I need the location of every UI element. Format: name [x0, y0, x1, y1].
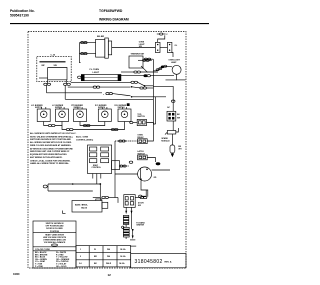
svg-text:TGF645WFWD: TGF645WFWD — [99, 9, 123, 13]
connector C on riser to top border — [157, 33, 168, 43]
door switch S7 — [167, 42, 178, 52]
wire gauge table — [76, 246, 131, 267]
svg-text:ANY WIRING IN THIS APPLIANCE.: ANY WIRING IN THIS APPLIANCE. — [30, 156, 63, 159]
label oven control — [76, 137, 94, 142]
svg-text:2: 2 — [80, 256, 81, 258]
wire thermostat right with connector — [143, 58, 153, 60]
svg-text:12: 12 — [108, 273, 112, 277]
wire with connector under switches — [138, 59, 152, 61]
bus wire A — [71, 81, 146, 86]
wire W1 thermostat lower — [121, 71, 158, 73]
oven lamp L1 — [153, 60, 185, 80]
connector pair below C-30 right — [63, 83, 70, 85]
wire under burner switches row 1 — [44, 122, 105, 127]
svg-text:THERMOSTAT: THERMOSTAT — [131, 53, 145, 56]
svg-text:BK-BR: BK-BR — [97, 36, 104, 38]
spark igniter electrode — [170, 134, 182, 157]
wire clock pin to junction — [99, 184, 101, 201]
svg-text:LIGHT: LIGHT — [93, 72, 100, 74]
wire motor M2 bottom jog — [135, 181, 148, 199]
connector block mark — [127, 103, 130, 106]
wire oven relay right riser — [147, 140, 153, 141]
thermostat box TH1 — [129, 53, 148, 73]
svg-text:14 GA: 14 GA — [119, 262, 125, 265]
svg-text:GD = GOLD: GD = GOLD — [56, 266, 67, 268]
clock timer A1 terminal block — [88, 145, 120, 179]
wire latch switch right — [147, 158, 155, 163]
wire vertical drop to lamp F1 — [79, 43, 80, 63]
svg-text:VALVE: VALVE — [81, 206, 88, 209]
svg-text:LABEL ALL WIRES PRIOR TO REMOV: LABEL ALL WIRES PRIOR TO REMOVAL. — [30, 162, 70, 165]
bus wire B — [68, 86, 154, 89]
wire oven relay left dashed — [130, 140, 138, 142]
wire TOD left with plug — [130, 121, 138, 123]
wire J-box down — [172, 121, 174, 131]
bus wire C — [47, 85, 167, 124]
wire switch S7 to lamp — [172, 53, 173, 58]
main diagram dashed border — [28, 32, 186, 269]
svg-text:EQUIVALENT SIZE WHEN REPLACING: EQUIVALENT SIZE WHEN REPLACING — [30, 153, 67, 156]
component oven switch — [137, 135, 147, 144]
wire motor right to switches — [112, 47, 156, 49]
svg-text:SWITCHES SHOWN IN OFF POSITION: SWITCHES SHOWN IN OFF POSITION AND — [30, 138, 71, 141]
door switch block S8 — [124, 195, 144, 208]
svg-text:MODULE: MODULE — [161, 140, 170, 142]
svg-text:ELEC. OVEN: ELEC. OVEN — [76, 137, 89, 139]
wire between switches — [160, 47, 167, 49]
wire valve right with connector — [93, 196, 118, 203]
header publication number — [10, 9, 35, 17]
motor M1 (top fan motor) — [96, 36, 112, 58]
header title WIRING DIAGRAM — [99, 17, 129, 21]
burner switch S5 — [115, 105, 132, 122]
burner switch S1 — [31, 105, 50, 122]
wire to latch row — [120, 165, 130, 167]
wire motor M2 right — [152, 169, 170, 171]
svg-text:OTHER WIRES ARE LOW: OTHER WIRES ARE LOW — [43, 239, 66, 242]
connector pair below C-30 left — [44, 83, 51, 85]
svg-text:04/00: 04/00 — [13, 272, 20, 276]
svg-text:CONTROL (ESEC): CONTROL (ESEC) — [76, 139, 94, 141]
svg-text:ATTENTION: DISCONNECT POWER BE: ATTENTION: DISCONNECT POWER BEFORE — [30, 147, 73, 150]
svg-text:HEAVY LINES SHOW: HEAVY LINES SHOW — [45, 233, 64, 236]
svg-text:1: 1 — [80, 249, 81, 251]
connector dark right of latch — [156, 163, 160, 165]
svg-text:LINE VOLTAGE CIRCUITS: LINE VOLTAGE CIRCUITS — [43, 236, 67, 239]
bus wire D — [65, 85, 153, 99]
svg-text:ALL SURFACE UNITS RATED AT 120: ALL SURFACE UNITS RATED AT 120 VOLTS A.C… — [30, 132, 77, 135]
svg-text:SW: SW — [139, 46, 142, 48]
burner switch S4 — [95, 105, 111, 122]
svg-text:16 GA: 16 GA — [120, 255, 126, 258]
notes text block — [30, 135, 74, 165]
J-box connector block — [167, 111, 181, 121]
svg-text:5995437190: 5995437190 — [10, 13, 29, 17]
wire junction from clock pin — [96, 179, 98, 185]
junction node valve feed — [99, 183, 101, 185]
svg-text:3-6: 3-6 — [79, 263, 82, 265]
wire TOD right — [147, 123, 156, 125]
wire left vertical bus — [115, 140, 130, 198]
svg-text:Publication No.: Publication No. — [10, 9, 35, 13]
svg-text:CHECK LOCAL CODES FOR GROUNDIN: CHECK LOCAL CODES FOR GROUNDING. — [30, 159, 71, 162]
gas valve V1 — [72, 199, 108, 212]
svg-text:LAMP: LAMP — [171, 61, 177, 64]
wire motor lower left — [79, 53, 95, 55]
header rule — [10, 23, 209, 25]
convection motor M2 — [138, 167, 157, 181]
wire W2 lamp return — [121, 75, 174, 77]
burner switch S2 — [52, 105, 69, 122]
svg-text:REV. A: REV. A — [165, 261, 172, 264]
wire under burner switches row 2 — [62, 122, 125, 131]
connector C-30 dashed box — [37, 54, 71, 83]
svg-text:IGNITER: IGNITER — [136, 225, 144, 227]
label ground tick — [63, 211, 66, 214]
svg-text:SWITCH: SWITCH — [137, 116, 145, 118]
svg-text:18 GA: 18 GA — [120, 248, 126, 251]
component switch TOD — [137, 114, 146, 126]
bake igniter E1 (glo-bar) — [122, 215, 146, 237]
svg-text:NOTE: UNLESS OTHERWISE SPECIFI: NOTE: UNLESS OTHERWISE SPECIFIED ALL — [30, 135, 74, 138]
wire igniter parallel right — [126, 214, 136, 247]
svg-text:WIRE COLORS SHOWN ARE AT HARNE: WIRE COLORS SHOWN ARE AT HARNESS. — [30, 144, 72, 147]
wire door switch down pins — [125, 207, 132, 213]
svg-text:318045802: 318045802 — [135, 259, 163, 265]
fluorescent oven lamp F1 — [81, 69, 121, 81]
connector left of motor — [129, 161, 133, 163]
oven selector switch S6 — [139, 42, 160, 53]
wire to J-box riser — [153, 86, 173, 111]
spark module plug — [165, 128, 178, 135]
svg-text:W: W — [94, 249, 96, 251]
wire motor M2 left — [115, 173, 138, 175]
svg-text:WH-R: WH-R — [106, 263, 112, 265]
svg-text:OFF POSITION AND: OFF POSITION AND — [46, 225, 65, 228]
svg-text:ALL WIRING SHOWN WITH DOOR CLO: ALL WIRING SHOWN WITH DOOR CLOSED. — [30, 141, 72, 144]
connector door switch top right — [139, 190, 147, 197]
header model number — [99, 9, 123, 13]
svg-text:BAKE / BROIL: BAKE / BROIL — [75, 204, 89, 207]
component latch switch — [137, 150, 147, 160]
harness plug P1 — [43, 183, 100, 191]
svg-text:SW: SW — [138, 205, 141, 207]
burner switch S3 — [71, 105, 87, 122]
connector on riser — [171, 100, 175, 102]
svg-text:SERVICING UNIT. USE COPPER WIR: SERVICING UNIT. USE COPPER WIRE OF — [30, 151, 70, 153]
spark module label — [161, 137, 170, 142]
title block — [131, 254, 186, 268]
svg-text:WIRING DIAGRAM: WIRING DIAGRAM — [99, 17, 129, 21]
svg-text:SW: SW — [54, 65, 57, 67]
vertical bus right — [152, 59, 154, 140]
wire motor upper left — [79, 42, 95, 44]
legend box — [33, 221, 76, 268]
svg-text:FL OVEN: FL OVEN — [90, 69, 100, 71]
svg-text:CONTROL: CONTROL — [92, 167, 102, 169]
svg-text:P = PINK: P = PINK — [35, 266, 44, 268]
svg-text:2D: 2D — [154, 177, 157, 179]
connector CD at lamp left — [78, 76, 82, 78]
